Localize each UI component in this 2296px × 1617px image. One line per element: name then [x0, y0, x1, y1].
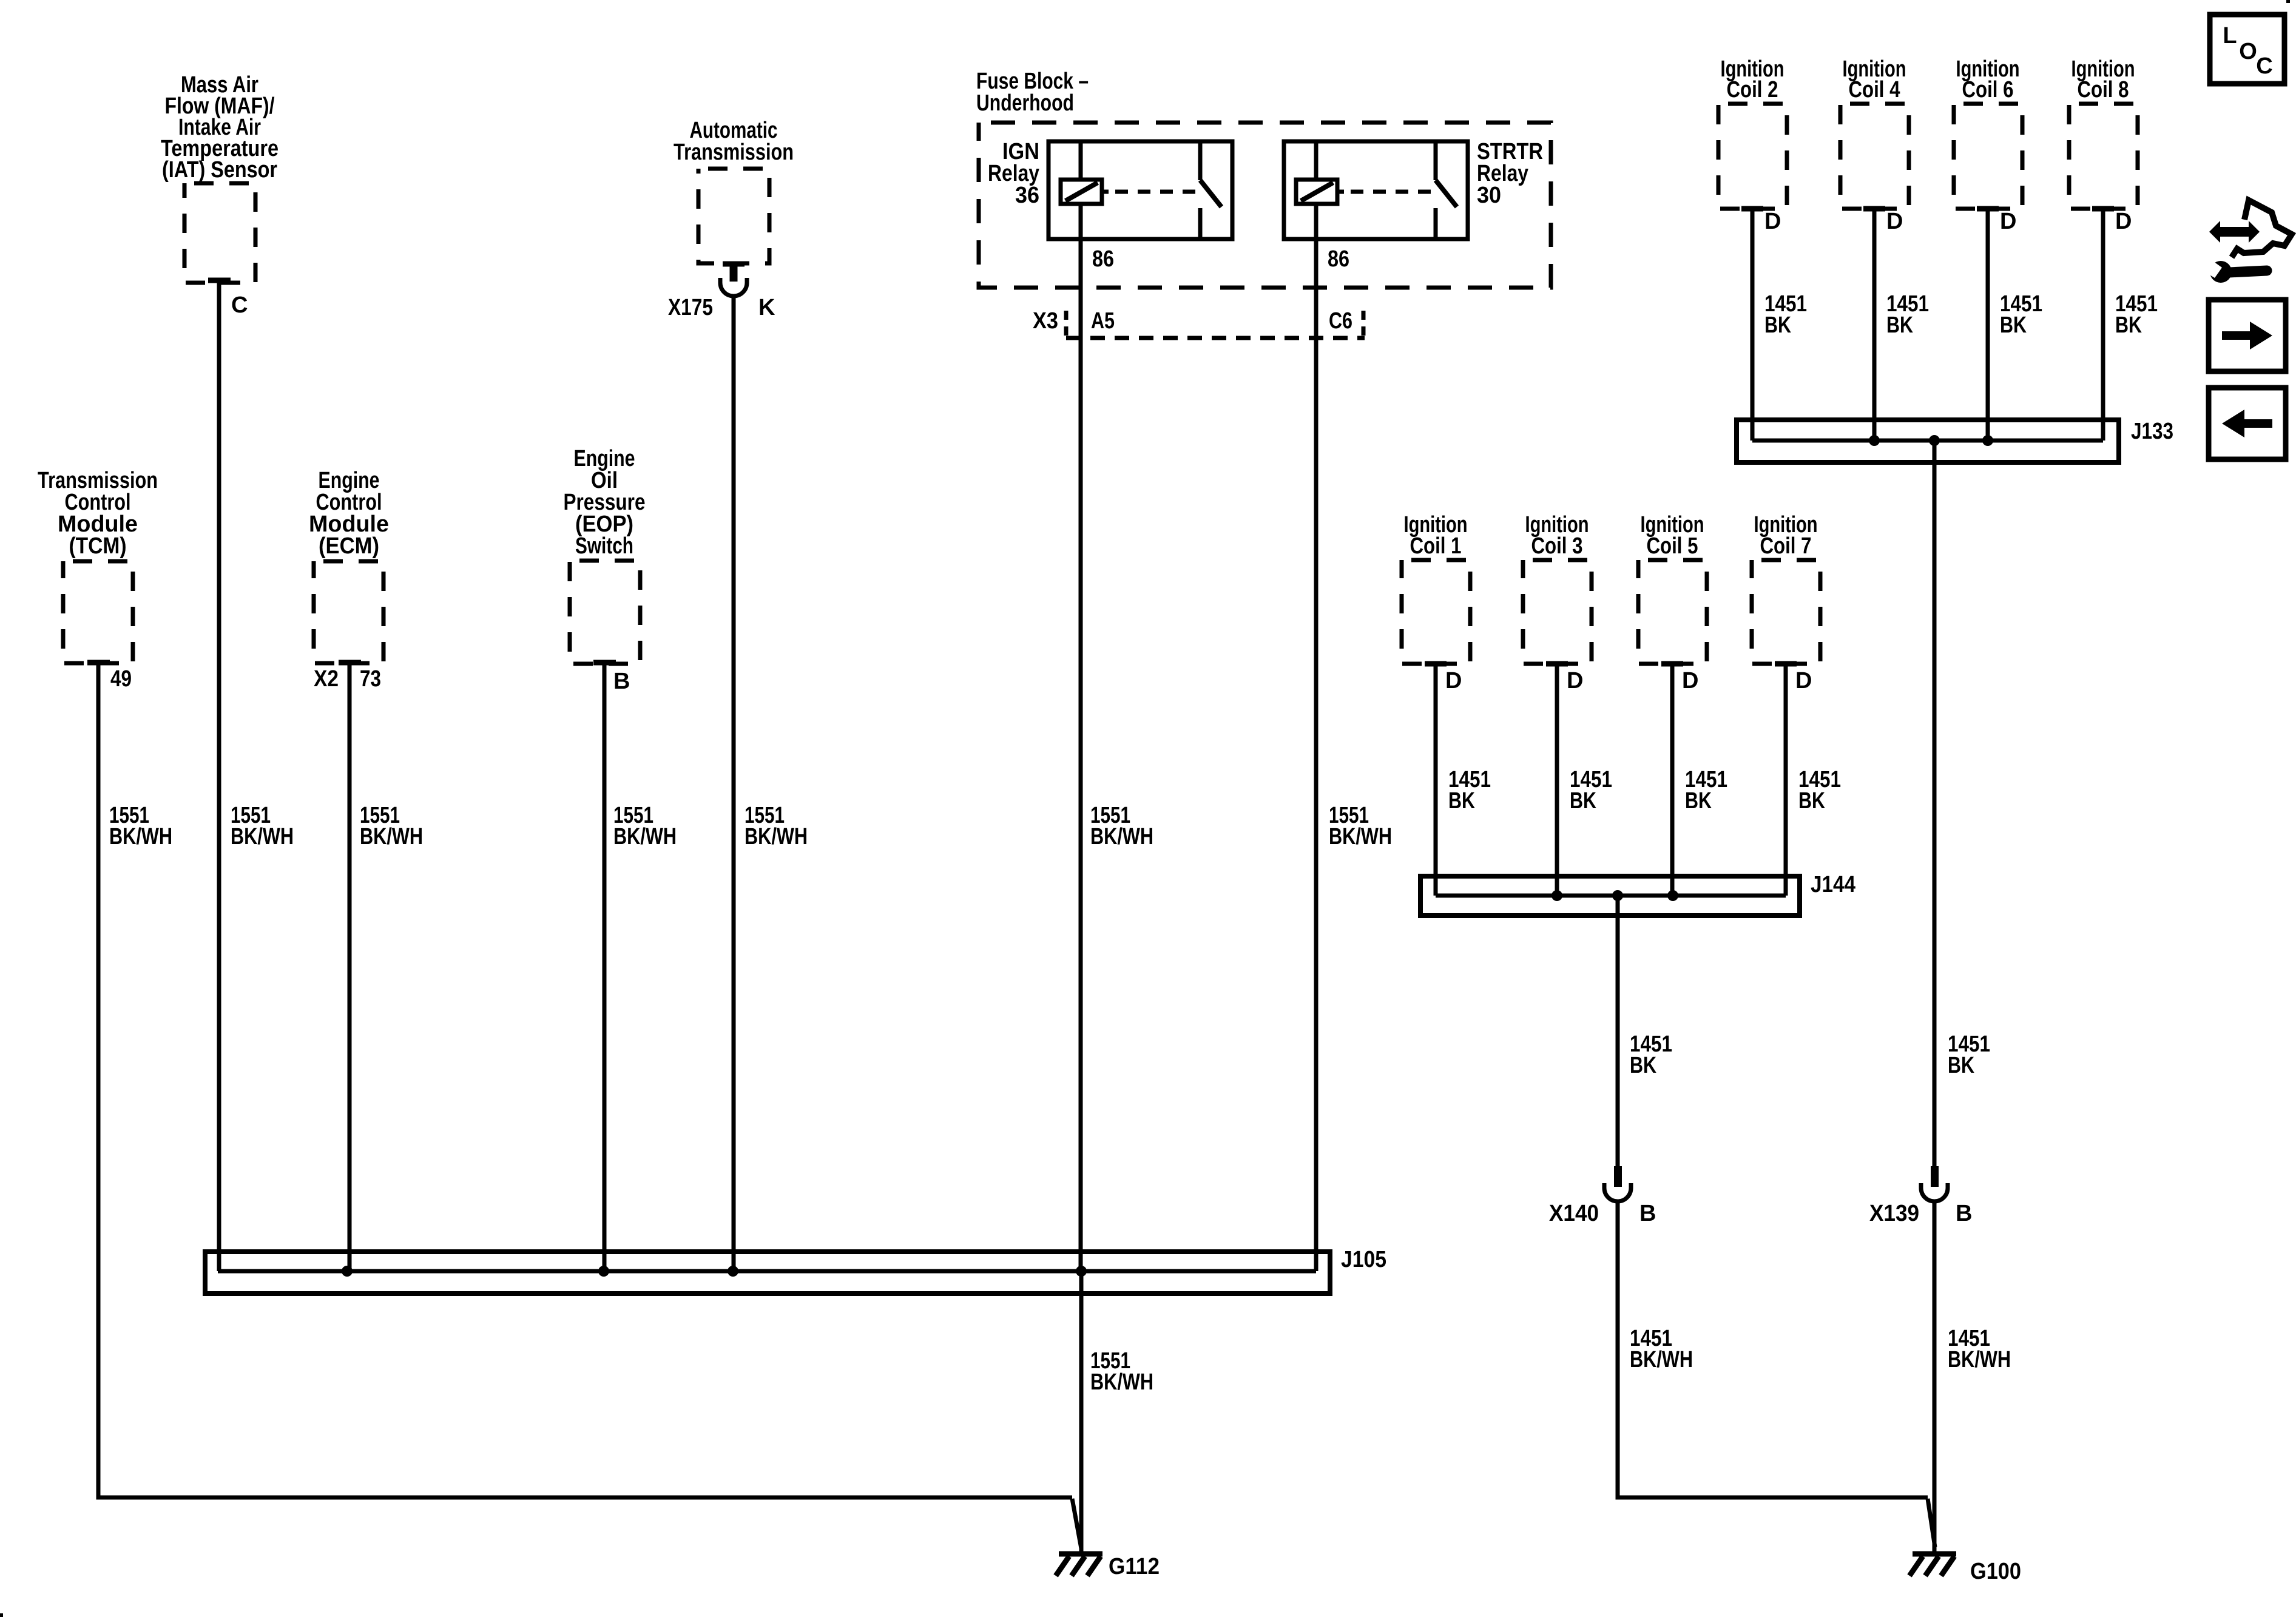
wire: EOP B to J105 (1551 BK/WH)	[603, 663, 607, 1271]
wire label 1551 BK/WH (A5)	[1090, 803, 1153, 849]
svg-text:Coil 7: Coil 7	[1760, 533, 1812, 559]
wire label 1451 BK (coil 5)	[1685, 767, 1727, 814]
junction dots on J133 bus	[1869, 435, 1993, 446]
svg-text:86: 86	[1328, 246, 1349, 272]
svg-text:X2: X2	[314, 666, 339, 692]
svg-text:J105: J105	[1341, 1247, 1386, 1272]
wire: coil 4 D to J133 (1451 BK)	[1872, 209, 1877, 441]
svg-text:49: 49	[110, 666, 132, 692]
svg-text:BK: BK	[1886, 312, 1913, 338]
Ignition Coil 4 (dashed box)	[1840, 104, 1909, 209]
svg-text:BK: BK	[2000, 312, 2027, 338]
wire label 1551 BK/WH (MAF)	[231, 803, 294, 849]
Ignition Coil 1 (dashed box)	[1402, 560, 1470, 664]
component label: Ignition Coil 8	[2071, 56, 2135, 103]
svg-text:D: D	[1567, 668, 1583, 694]
junction dots on J144 bus	[1551, 890, 1678, 901]
svg-text:D: D	[1795, 668, 1812, 694]
relay coil (IGN)	[1061, 180, 1102, 204]
svg-text:Coil 3: Coil 3	[1531, 533, 1583, 559]
component label: Mass Air Flow (MAF)/Intake Air Temperature (IAT) Sensor	[161, 72, 279, 183]
Ignition Coil 6 (dashed box)	[1954, 104, 2022, 209]
component label: Ignition Coil 6	[1956, 56, 2020, 103]
svg-text:D: D	[2000, 209, 2016, 234]
back arrow box	[2209, 388, 2286, 459]
svg-text:BK/WH: BK/WH	[1630, 1347, 1693, 1372]
svg-text:36: 36	[1015, 183, 1039, 208]
Ignition Coil 3 (dashed box)	[1523, 560, 1592, 664]
wire label 1451 BK (coil 7)	[1798, 767, 1841, 814]
wire: ECM 73 to J105 (1551 BK/WH)	[348, 663, 352, 1271]
page artifact marks	[2286, 0, 2290, 3]
svg-text:BK: BK	[1764, 312, 1791, 338]
svg-text:O: O	[2239, 39, 2257, 64]
junction dots on J105 bus	[342, 1266, 1087, 1277]
forward arrow box	[2209, 300, 2286, 371]
wire: coil 7 D to J144 (1451 BK)	[1784, 664, 1788, 896]
svg-text:BK: BK	[1630, 1053, 1656, 1078]
svg-text:J144: J144	[1811, 872, 1855, 897]
splice pack J105	[205, 1252, 1330, 1294]
svg-text:L: L	[2223, 23, 2237, 49]
MAF/IAT sensor (dashed box)	[184, 183, 255, 283]
component label: Automatic Transmission	[674, 118, 794, 165]
wire label 1551 BK/WH (J105 to G112)	[1090, 1348, 1153, 1395]
svg-text:86: 86	[1092, 246, 1114, 272]
wire: STRTR relay 86/C6 to J105 (1551 BK/WH)	[1314, 239, 1319, 1271]
Automatic Transmission (dashed box)	[698, 169, 769, 263]
ground G100	[1909, 1554, 1956, 1576]
component label: Ignition Coil 5	[1641, 512, 1704, 559]
diagnostic tool icon (double arrow, wrench, hood outline)	[2203, 200, 2292, 283]
svg-text:BK: BK	[1798, 788, 1825, 814]
Ignition Coil 5 (dashed box)	[1638, 560, 1707, 664]
wire label 1451 BK/WH (X139)	[1948, 1326, 2011, 1372]
component label: Ignition Coil 3	[1525, 512, 1589, 559]
relay switch (STRTR)	[1434, 141, 1438, 180]
svg-text:BK: BK	[2115, 312, 2142, 338]
svg-text:X139: X139	[1869, 1201, 1919, 1226]
component label: Engine Control Module (ECM)	[309, 468, 389, 559]
ground G112	[1056, 1554, 1102, 1576]
wire: coil 1 D to J144 (1451 BK)	[1434, 664, 1438, 896]
svg-text:B: B	[613, 669, 630, 694]
svg-text:BK/WH: BK/WH	[1329, 824, 1392, 849]
svg-text:BK/WH: BK/WH	[1090, 1369, 1153, 1395]
wire label 1451 BK (J144-X140)	[1630, 1031, 1672, 1078]
wire: X175 K to J105 (1551 BK/WH)	[732, 296, 736, 1271]
wire label 1551 BK/WH (EOP)	[613, 803, 677, 849]
relay label: IGN Relay 36	[988, 139, 1039, 208]
svg-text:A5: A5	[1091, 308, 1115, 334]
wire: J144 to X140 (1451 BK)	[1616, 896, 1620, 1166]
svg-text:BK/WH: BK/WH	[1948, 1347, 2011, 1372]
component label: Ignition Coil 4	[1843, 56, 1906, 103]
svg-text:Transmission: Transmission	[674, 140, 794, 165]
connector X3 strip	[1066, 311, 1365, 338]
svg-text:BK/WH: BK/WH	[360, 824, 423, 849]
svg-text:(IAT) Sensor: (IAT) Sensor	[162, 157, 277, 183]
svg-text:C: C	[231, 292, 248, 318]
wire: coil 8 D to J133 (1451 BK)	[2101, 209, 2105, 441]
svg-text:K: K	[758, 295, 775, 320]
svg-text:Coil 8: Coil 8	[2078, 77, 2129, 103]
svg-text:BK: BK	[1448, 788, 1475, 814]
svg-text:B: B	[1956, 1201, 1972, 1226]
svg-text:G100: G100	[1970, 1559, 2021, 1584]
wire label 1451 BK (coil 4)	[1886, 291, 1929, 338]
IGN relay	[1048, 141, 1232, 239]
ECM (dashed box)	[314, 561, 383, 663]
EOP switch (dashed box)	[570, 561, 640, 664]
svg-text:Coil 6: Coil 6	[1962, 77, 2014, 103]
wire label 1451 BK/WH (X140)	[1630, 1326, 1693, 1372]
component label: Ignition Coil 2	[1721, 56, 1784, 103]
wire: coil 2 D to J133 (1451 BK)	[1751, 209, 1755, 441]
svg-text:D: D	[2115, 209, 2132, 234]
wire: coil 5 D to J144 (1451 BK)	[1670, 664, 1675, 896]
LOC legend box	[2210, 15, 2284, 84]
fuse block underhood (dashed outline)	[979, 123, 1551, 288]
svg-text:BK/WH: BK/WH	[745, 824, 808, 849]
svg-text:D: D	[1682, 668, 1698, 694]
svg-text:BK/WH: BK/WH	[231, 824, 294, 849]
wire: coil 3 D to J144 (1451 BK)	[1555, 664, 1559, 896]
wire: J105 to G112 (1551 BK/WH)	[1079, 1271, 1084, 1554]
wire: MAF C to J105 (1551 BK/WH)	[217, 280, 221, 1271]
svg-text:B: B	[1639, 1201, 1656, 1226]
Ignition Coil 2 (dashed box)	[1718, 104, 1787, 209]
svg-text:Coil 2: Coil 2	[1727, 77, 1778, 103]
svg-text:BK: BK	[1948, 1053, 1974, 1078]
component label: Ignition Coil 1	[1404, 512, 1468, 559]
svg-text:D: D	[1445, 668, 1462, 694]
wire label 1451 BK (coil 2)	[1764, 291, 1807, 338]
wire label 1451 BK (J133-X139)	[1948, 1031, 1990, 1078]
component label: Engine Oil Pressure (EOP) Switch	[564, 446, 646, 559]
svg-text:BK/WH: BK/WH	[613, 824, 677, 849]
svg-text:X175: X175	[668, 295, 713, 320]
wire label 1551 BK/WH (ECM)	[360, 803, 423, 849]
relay switch (IGN)	[1198, 141, 1203, 180]
svg-text:Coil 5: Coil 5	[1647, 533, 1698, 559]
svg-text:Underhood: Underhood	[976, 90, 1074, 116]
component label: Ignition Coil 7	[1754, 512, 1818, 559]
wire: TCM 49 to G112 (1551 BK/WH)	[98, 663, 1072, 1497]
svg-text:BK/WH: BK/WH	[109, 824, 172, 849]
wire label 1551 BK/WH (TCM)	[109, 803, 172, 849]
wire: coil 6 D to J133 (1451 BK)	[1986, 209, 1990, 441]
component label: Transmission Control Module (TCM)	[38, 468, 158, 559]
wire label 1551 BK/WH (C6)	[1329, 803, 1392, 849]
svg-text:X140: X140	[1549, 1201, 1599, 1226]
svg-text:Switch: Switch	[575, 533, 633, 559]
svg-text:73: 73	[360, 666, 381, 692]
wire label 1551 BK/WH (AT)	[745, 803, 808, 849]
svg-text:BK: BK	[1685, 788, 1712, 814]
wire: IGN relay 86/A5 to J105 (1551 BK/WH)	[1079, 239, 1083, 1271]
svg-text:G112: G112	[1109, 1554, 1160, 1579]
inline connector X175 (pin and socket)	[720, 264, 747, 296]
svg-text:Coil 1: Coil 1	[1410, 533, 1462, 559]
inline connector X139 (pin and socket)	[1921, 1166, 1948, 1201]
wire: J133 to X139 (1451 BK)	[1933, 441, 1937, 1166]
splice pack J144	[1420, 876, 1800, 916]
svg-text:J133: J133	[2131, 419, 2173, 444]
svg-text:D: D	[1886, 209, 1903, 234]
wire: X140 B to G100 (1451 BK/WH)	[1618, 1201, 1928, 1497]
wire label 1451 BK (coil 3)	[1570, 767, 1612, 814]
svg-text:D: D	[1764, 209, 1781, 234]
component label: Fuse Block - Underhood	[976, 69, 1089, 116]
wire label 1451 BK (coil 6)	[2000, 291, 2042, 338]
inline connector X140 (pin and socket)	[1604, 1166, 1631, 1201]
TCM (dashed box)	[63, 561, 133, 663]
Ignition Coil 8 (dashed box)	[2069, 104, 2138, 209]
splice pack J133	[1737, 420, 2119, 462]
svg-text:(ECM): (ECM)	[319, 533, 379, 559]
wire label 1451 BK (coil 1)	[1448, 767, 1491, 814]
svg-text:BK: BK	[1570, 788, 1596, 814]
svg-text:C: C	[2256, 53, 2272, 79]
relay coil (STRTR)	[1296, 180, 1337, 204]
STRTR relay	[1284, 141, 1468, 239]
svg-text:X3: X3	[1033, 308, 1058, 334]
relay label: STRTR Relay 30	[1477, 139, 1543, 208]
wire: X139 B to G100 (1451 BK/WH)	[1933, 1201, 1937, 1553]
svg-text:(TCM): (TCM)	[69, 533, 127, 559]
svg-text:30: 30	[1477, 183, 1501, 208]
svg-text:BK/WH: BK/WH	[1090, 824, 1153, 849]
svg-text:C6: C6	[1329, 308, 1352, 334]
Ignition Coil 7 (dashed box)	[1752, 560, 1820, 664]
svg-text:Coil 4: Coil 4	[1849, 77, 1900, 103]
wire label 1451 BK (coil 8)	[2115, 291, 2158, 338]
